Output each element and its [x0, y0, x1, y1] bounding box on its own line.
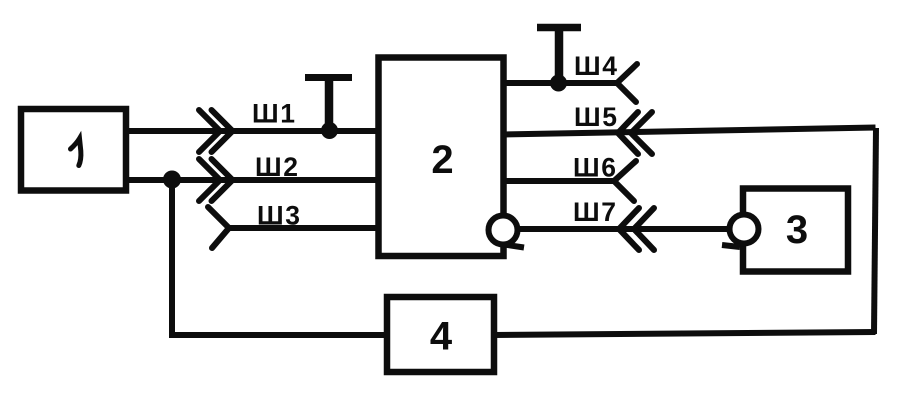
overshoot tab at block 2 bottom-right corner: [504, 245, 524, 248]
wire Ш7 (connector of block 2 to connector of block 3): [512, 226, 734, 232]
svg-text:Ш1: Ш1: [252, 99, 297, 129]
chevrons << on wire Ш7: [619, 208, 654, 250]
chevrons >> on wire Ш2: [199, 159, 233, 201]
connector circle on block 3 (wire Ш7): [730, 215, 759, 244]
chevrons << on wire Ш5: [618, 112, 652, 154]
wire Ш6 (block 2 to open fork): [503, 178, 614, 184]
fork on wire Ш6: [614, 161, 636, 201]
svg-text:Ш4: Ш4: [574, 51, 619, 81]
wire Ш4 (block 2 to open fork): [503, 80, 617, 86]
svg-text:Ш2: Ш2: [255, 152, 300, 182]
junction dot on wire Ш2: [163, 171, 181, 189]
terminator T over wire Ш1: [305, 78, 352, 132]
fork on wire Ш3: [208, 207, 229, 248]
wire Ш1 (block 1 to block 2): [124, 128, 379, 134]
bottom feedback wire (left of block 4): [169, 332, 387, 338]
left vertical feedback wire: [169, 180, 175, 335]
block 3: [743, 189, 848, 272]
svg-text:3: 3: [786, 208, 808, 252]
block 2: [379, 58, 504, 257]
svg-text:Ш7: Ш7: [573, 197, 618, 227]
svg-text:Ш3: Ш3: [257, 201, 302, 231]
wire Ш5 (block 2 to right feedback wire): [503, 128, 876, 135]
terminator T over wire Ш4: [537, 28, 581, 84]
block 4: [387, 297, 494, 372]
chevrons >> on wire Ш1: [199, 110, 233, 152]
wire Ш2 (block 1 to block 2): [124, 177, 379, 183]
right vertical feedback wire: [874, 128, 876, 334]
svg-text:Ш5: Ш5: [574, 102, 619, 132]
svg-text:Ш6: Ш6: [573, 153, 618, 183]
junction dot on wire Ш1: [321, 122, 338, 139]
bottom feedback wire (right of block 4): [494, 332, 876, 335]
svg-text:4: 4: [430, 315, 453, 359]
connector circle on block 2 (wire Ш7): [489, 216, 518, 245]
fork on wire Ш4: [617, 64, 637, 102]
wire Ш3 (open fork to block 2): [229, 225, 379, 231]
junction dot on wire Ш4: [550, 75, 567, 92]
block 1: [21, 109, 126, 191]
overshoot tail left of block 3 connector: [722, 245, 740, 247]
svg-text:2: 2: [431, 138, 453, 182]
